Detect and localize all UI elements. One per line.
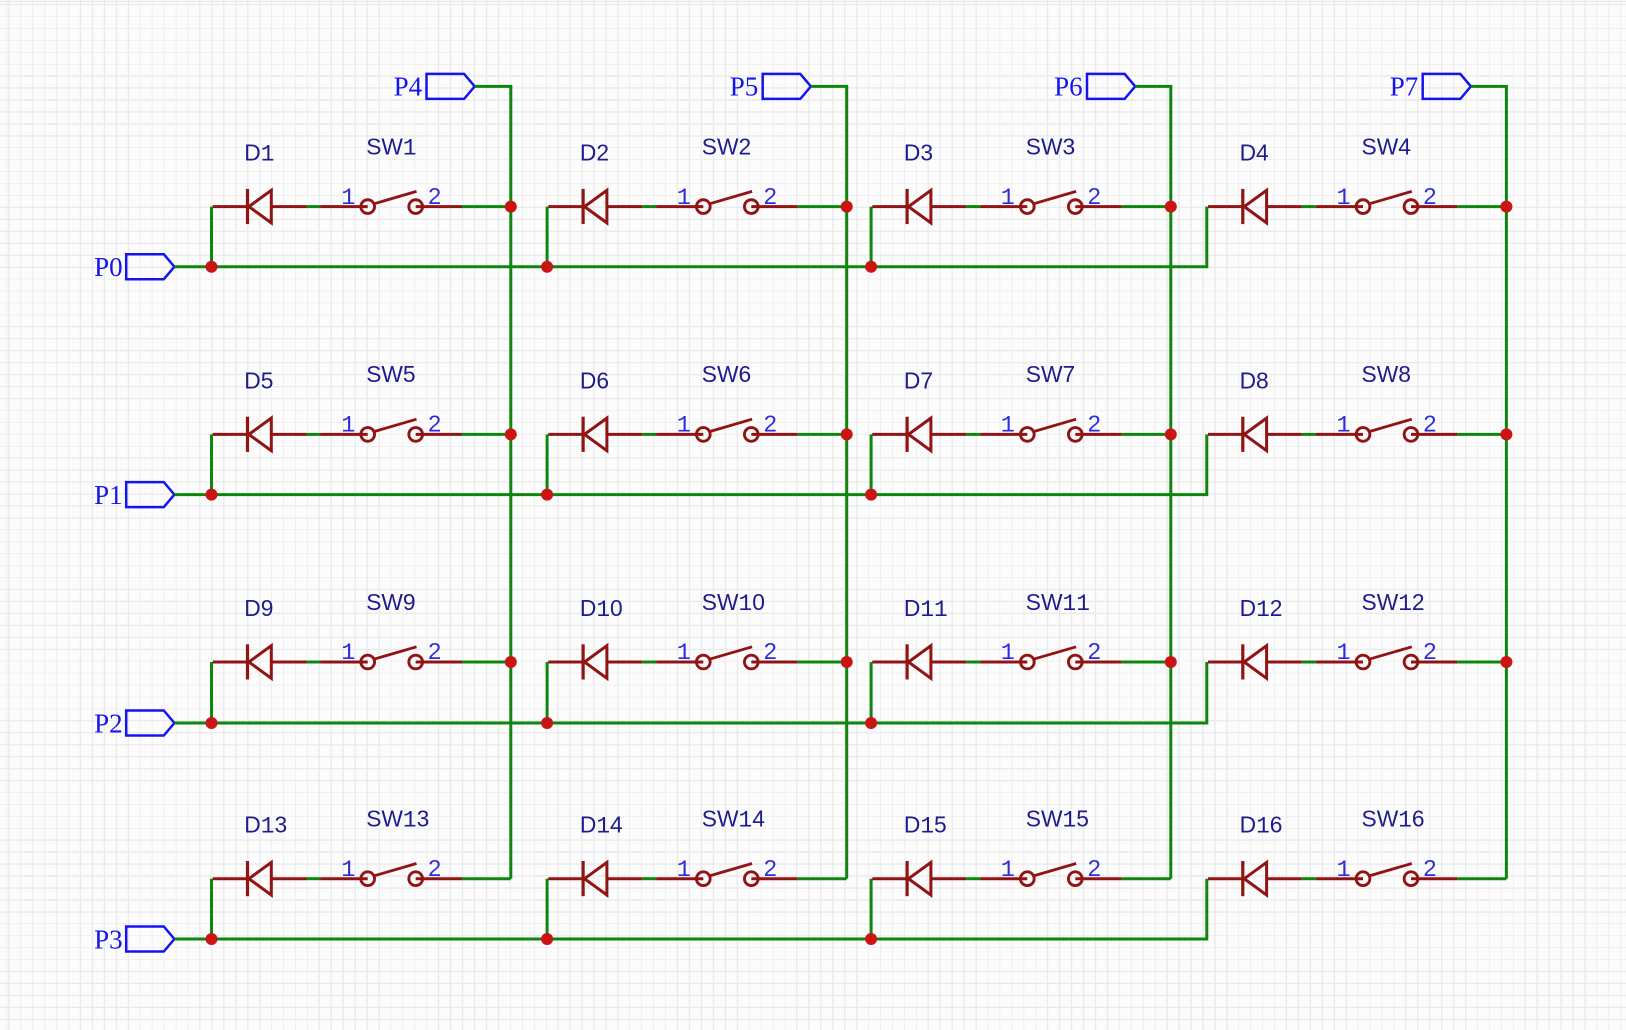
junction column net P4 row 1 — [505, 428, 517, 440]
wire diode D16 to switch SW16 — [1302, 877, 1316, 880]
wire switch SW11 to column net P6 — [1122, 661, 1171, 664]
diode D1 — [213, 189, 307, 224]
switch SW1 — [321, 191, 463, 213]
svg-text:D12: D12 — [1240, 595, 1283, 623]
junction column net P5 row 2 — [841, 656, 853, 668]
svg-text:1: 1 — [1001, 640, 1015, 667]
svg-text:SW16: SW16 — [1362, 806, 1425, 834]
svg-text:D2: D2 — [580, 140, 609, 166]
wire port P5 to column net — [811, 85, 848, 88]
svg-text:D1: D1 — [244, 140, 274, 168]
wire bus P0 to diode D1 riser — [210, 207, 213, 267]
port P6 — [1087, 74, 1135, 99]
svg-text:2: 2 — [428, 855, 441, 881]
switch SW14 — [656, 864, 798, 886]
wire bus P0 to diode D2 riser — [546, 207, 549, 267]
svg-text:2: 2 — [1088, 183, 1101, 209]
svg-text:P7: P7 — [1390, 72, 1419, 102]
wire switch SW16 to column net P7 — [1457, 877, 1506, 880]
switch SW13 — [321, 864, 463, 886]
svg-text:2: 2 — [764, 411, 777, 437]
wire switch SW9 to column net P4 — [462, 661, 511, 664]
diode D4 — [1208, 189, 1302, 224]
wire switch SW14 to column net P5 — [798, 877, 847, 880]
port P2 — [126, 711, 174, 736]
wire bus P1 to diode D7 riser — [870, 434, 873, 494]
svg-text:D16: D16 — [1240, 812, 1283, 840]
junction column net P7 row 0 — [1500, 201, 1512, 213]
junction column net P5 row 0 — [841, 201, 853, 213]
svg-text:D10: D10 — [580, 595, 623, 623]
junction column net P6 row 1 — [1165, 428, 1177, 440]
svg-text:1: 1 — [677, 640, 691, 667]
svg-text:1: 1 — [677, 413, 691, 440]
svg-text:1: 1 — [677, 185, 691, 212]
junction bus P1 cell 5 — [206, 489, 218, 501]
switch SW7 — [980, 419, 1122, 441]
junction bus P2 cell 11 — [865, 717, 877, 729]
wire row bus P2 horizontal — [174, 722, 1206, 725]
svg-text:D13: D13 — [244, 812, 287, 840]
wire switch SW12 to column net P7 — [1457, 661, 1506, 664]
svg-text:SW13: SW13 — [366, 806, 429, 834]
svg-text:P4: P4 — [394, 72, 423, 102]
wire diode D6 to switch SW6 — [642, 433, 656, 436]
diode D3 — [872, 189, 966, 224]
svg-text:2: 2 — [764, 638, 777, 664]
wire row bus P3 end riser — [1205, 879, 1208, 941]
switch SW8 — [1316, 419, 1458, 441]
diode D15 — [872, 861, 966, 896]
wire switch SW10 to column net P5 — [798, 661, 847, 664]
svg-text:SW15: SW15 — [1026, 806, 1089, 834]
diode D8 — [1208, 417, 1302, 452]
junction bus P0 cell 3 — [865, 261, 877, 273]
junction bus P1 cell 6 — [541, 489, 553, 501]
junction bus P3 cell 13 — [206, 933, 218, 945]
svg-text:SW8: SW8 — [1362, 361, 1411, 387]
diode D9 — [213, 644, 307, 679]
wire switch SW15 to column net P6 — [1122, 877, 1171, 880]
wire bus P2 to diode D11 riser — [870, 662, 873, 723]
svg-text:D5: D5 — [244, 367, 273, 393]
svg-text:SW3: SW3 — [1026, 133, 1075, 159]
switch SW12 — [1316, 647, 1458, 669]
svg-text:2: 2 — [428, 183, 441, 209]
switch SW15 — [980, 864, 1122, 886]
wire column net P6 vertical — [1169, 86, 1172, 878]
wire diode D1 to switch SW1 — [307, 205, 321, 208]
svg-text:1: 1 — [1336, 185, 1350, 212]
wire port P4 to column net — [475, 85, 513, 88]
svg-text:P5: P5 — [730, 72, 759, 102]
port P3 — [126, 927, 174, 952]
switch SW10 — [656, 647, 798, 669]
diode D10 — [548, 644, 642, 679]
svg-text:1: 1 — [341, 640, 355, 667]
wire bus P3 to diode D13 riser — [210, 879, 213, 939]
wire diode D8 to switch SW8 — [1302, 433, 1316, 436]
wire bus P0 to diode D3 riser — [870, 207, 873, 267]
diode D12 — [1208, 644, 1302, 679]
switch SW11 — [980, 647, 1122, 669]
svg-text:2: 2 — [428, 638, 441, 664]
wire row bus P0 end riser — [1205, 207, 1208, 269]
wire diode D4 to switch SW4 — [1302, 205, 1316, 208]
wire switch SW7 to column net P6 — [1122, 433, 1171, 436]
wire switch SW4 to column net P7 — [1457, 205, 1506, 208]
svg-text:SW9: SW9 — [366, 589, 415, 615]
wire column net P4 vertical — [509, 86, 512, 878]
svg-text:D11: D11 — [904, 595, 948, 623]
switch SW6 — [656, 419, 798, 441]
junction column net P4 row 2 — [505, 656, 517, 668]
wire bus P3 to diode D14 riser — [546, 879, 549, 939]
wire diode D2 to switch SW2 — [642, 205, 656, 208]
svg-text:P3: P3 — [94, 924, 123, 954]
wire diode D7 to switch SW7 — [966, 433, 980, 436]
svg-text:1: 1 — [1336, 413, 1350, 440]
junction bus P3 cell 15 — [865, 933, 877, 945]
port P4 — [427, 74, 475, 99]
junction column net P6 row 2 — [1165, 656, 1177, 668]
port P0 — [126, 254, 174, 279]
svg-text:2: 2 — [1088, 638, 1101, 664]
svg-text:D4: D4 — [1240, 140, 1269, 166]
svg-text:SW12: SW12 — [1362, 589, 1425, 617]
wire switch SW3 to column net P6 — [1122, 205, 1171, 208]
wire bus P2 to diode D10 riser — [546, 662, 549, 723]
switch SW3 — [980, 191, 1122, 213]
diode D7 — [872, 417, 966, 452]
svg-text:1: 1 — [1001, 857, 1015, 884]
svg-text:SW2: SW2 — [702, 133, 751, 159]
diode D2 — [548, 189, 642, 224]
wire switch SW6 to column net P5 — [798, 433, 847, 436]
svg-text:2: 2 — [1423, 855, 1436, 881]
junction column net P5 row 1 — [841, 428, 853, 440]
wire bus P1 to diode D6 riser — [546, 434, 549, 494]
wire port P7 to column net — [1471, 85, 1508, 88]
svg-text:D14: D14 — [580, 812, 623, 840]
junction column net P7 row 2 — [1500, 656, 1512, 668]
switch SW2 — [656, 191, 798, 213]
wire diode D13 to switch SW13 — [307, 877, 321, 880]
diode D14 — [548, 861, 642, 896]
port P5 — [763, 74, 811, 99]
wire row bus P3 horizontal — [174, 938, 1206, 941]
wire switch SW1 to column net P4 — [462, 205, 511, 208]
wire row bus P1 end riser — [1205, 434, 1208, 496]
svg-text:2: 2 — [428, 411, 441, 437]
svg-text:SW10: SW10 — [702, 589, 765, 617]
svg-text:SW11: SW11 — [1026, 589, 1090, 617]
wire switch SW13 to column net P4 — [462, 877, 511, 880]
svg-text:D6: D6 — [580, 367, 609, 393]
junction bus P3 cell 14 — [541, 933, 553, 945]
junction column net P4 row 0 — [505, 201, 517, 213]
junction bus P2 cell 10 — [541, 717, 553, 729]
svg-text:2: 2 — [1423, 183, 1436, 209]
wire diode D5 to switch SW5 — [307, 433, 321, 436]
junction column net P6 row 0 — [1165, 201, 1177, 213]
wire switch SW8 to column net P7 — [1457, 433, 1506, 436]
switch SW9 — [321, 647, 463, 669]
wire switch SW5 to column net P4 — [462, 433, 511, 436]
diode D16 — [1208, 861, 1302, 896]
svg-text:SW5: SW5 — [366, 361, 415, 387]
svg-text:D7: D7 — [904, 367, 933, 393]
port P7 — [1423, 74, 1471, 99]
svg-text:1: 1 — [1001, 413, 1015, 440]
wire bus P1 to diode D5 riser — [210, 434, 213, 494]
wire diode D15 to switch SW15 — [966, 877, 980, 880]
wire switch SW2 to column net P5 — [798, 205, 847, 208]
diode D13 — [213, 861, 307, 896]
svg-text:D9: D9 — [244, 595, 273, 621]
junction bus P2 cell 9 — [206, 717, 218, 729]
diode D6 — [548, 417, 642, 452]
svg-text:SW7: SW7 — [1026, 361, 1075, 387]
wire column net P7 vertical — [1505, 86, 1508, 878]
wire row bus P1 horizontal — [174, 493, 1206, 496]
svg-text:1: 1 — [341, 413, 355, 440]
junction column net P7 row 1 — [1500, 428, 1512, 440]
svg-text:2: 2 — [1423, 638, 1436, 664]
svg-text:D15: D15 — [904, 812, 947, 840]
svg-text:D8: D8 — [1240, 367, 1269, 393]
wire diode D10 to switch SW10 — [642, 661, 656, 664]
svg-text:P2: P2 — [94, 708, 123, 738]
wire row bus P0 horizontal — [174, 265, 1206, 268]
svg-text:P1: P1 — [94, 480, 123, 510]
svg-text:D3: D3 — [904, 140, 933, 166]
svg-text:SW1: SW1 — [366, 133, 416, 161]
wire diode D9 to switch SW9 — [307, 661, 321, 664]
junction bus P0 cell 1 — [206, 261, 218, 273]
diode D11 — [872, 644, 966, 679]
svg-text:1: 1 — [1336, 857, 1350, 884]
wire column net P5 vertical — [845, 86, 848, 878]
svg-text:1: 1 — [1336, 640, 1350, 667]
svg-text:1: 1 — [341, 185, 355, 212]
svg-text:1: 1 — [677, 857, 691, 884]
svg-text:2: 2 — [1423, 411, 1436, 437]
svg-text:2: 2 — [764, 183, 777, 209]
svg-text:2: 2 — [764, 855, 777, 881]
svg-text:SW14: SW14 — [702, 806, 765, 834]
switch SW4 — [1316, 191, 1458, 213]
switch SW5 — [321, 419, 463, 441]
wire bus P2 to diode D9 riser — [210, 662, 213, 723]
junction bus P0 cell 2 — [541, 261, 553, 273]
port P1 — [126, 482, 174, 507]
wire diode D14 to switch SW14 — [642, 877, 656, 880]
svg-text:SW6: SW6 — [702, 361, 751, 387]
junction bus P1 cell 7 — [865, 489, 877, 501]
wire bus P3 to diode D15 riser — [870, 879, 873, 939]
diode D5 — [213, 417, 307, 452]
wire diode D12 to switch SW12 — [1302, 661, 1316, 664]
svg-text:P6: P6 — [1054, 72, 1083, 102]
svg-text:P0: P0 — [94, 252, 123, 282]
wire diode D11 to switch SW11 — [966, 661, 980, 664]
svg-text:2: 2 — [1088, 855, 1101, 881]
wire port P6 to column net — [1135, 85, 1172, 88]
svg-text:1: 1 — [1001, 185, 1015, 212]
svg-text:2: 2 — [1088, 411, 1101, 437]
svg-text:SW4: SW4 — [1362, 133, 1412, 159]
switch SW16 — [1316, 864, 1458, 886]
wire row bus P2 end riser — [1205, 662, 1208, 725]
svg-text:1: 1 — [341, 857, 355, 884]
wire diode D3 to switch SW3 — [966, 205, 980, 208]
